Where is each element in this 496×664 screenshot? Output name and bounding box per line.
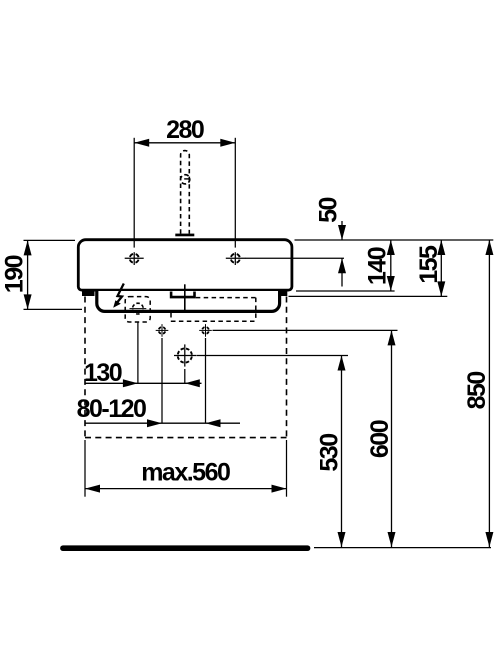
faucet base plate bbox=[175, 234, 194, 237]
floor line thick bbox=[63, 545, 308, 551]
dimension 280 extension line right bbox=[234, 138, 236, 248]
faucet aerator dashed circle bbox=[181, 175, 190, 184]
svg-text:50: 50 bbox=[315, 198, 343, 223]
basin top extension line bbox=[295, 239, 494, 241]
dimension 530 bbox=[316, 356, 346, 548]
floor line thin bbox=[314, 547, 491, 549]
dimension 50 bbox=[315, 198, 347, 287]
wall bracket right bbox=[275, 289, 288, 296]
dimension 600 bbox=[366, 330, 396, 547]
dimension 280 bbox=[134, 116, 235, 147]
fixing hole left bbox=[156, 324, 169, 337]
inlet extension line bbox=[137, 323, 139, 384]
fixing left extension line bbox=[161, 338, 163, 423]
dimension 280 extension line left bbox=[133, 138, 135, 248]
drain fitting bbox=[171, 292, 194, 298]
siphon cover outline bbox=[97, 291, 280, 311]
water inlet circle bbox=[130, 303, 147, 314]
fixing right extension line bbox=[205, 338, 207, 423]
dimension 140 bbox=[363, 240, 395, 291]
svg-text:140: 140 bbox=[363, 247, 391, 285]
svg-text:max.560: max.560 bbox=[141, 459, 230, 487]
basin outline bbox=[78, 240, 292, 290]
svg-text:600: 600 bbox=[366, 420, 394, 458]
lightning arrow bbox=[113, 284, 124, 308]
dimension 80-120 bbox=[77, 395, 240, 427]
tap hole right crosshair bbox=[226, 252, 246, 265]
svg-text:80-120: 80-120 bbox=[77, 395, 146, 423]
tap hole extension line right bbox=[245, 257, 344, 259]
svg-text:280: 280 bbox=[166, 116, 204, 144]
concealed trap dashed rect bbox=[171, 298, 256, 322]
svg-text:850: 850 bbox=[463, 372, 491, 410]
drain hole crosshair bbox=[174, 344, 196, 366]
basin bottom extension line bbox=[296, 290, 395, 292]
svg-text:190: 190 bbox=[0, 255, 28, 293]
dimension 130 bbox=[84, 359, 202, 388]
svg-text:530: 530 bbox=[316, 434, 344, 472]
installation space dashed rect bbox=[85, 297, 287, 438]
fixing hole right bbox=[199, 324, 212, 337]
dimension 155 bbox=[415, 240, 445, 296]
svg-text:130: 130 bbox=[84, 359, 122, 387]
max.560 extension lines bbox=[84, 440, 86, 497]
drain extension line bbox=[184, 369, 186, 383]
dimension 190 ticks bbox=[24, 239, 76, 241]
tap hole left crosshair bbox=[125, 252, 144, 265]
dimension 850 bbox=[463, 240, 493, 547]
faucet dashed outline bbox=[181, 151, 190, 234]
dimension max.560 bbox=[85, 459, 287, 493]
bracket bottom extension line bbox=[289, 295, 448, 297]
dimension 190 bbox=[0, 240, 31, 309]
drain centerline bbox=[184, 284, 186, 311]
fixing holes line to 600 bbox=[213, 329, 398, 331]
svg-text:155: 155 bbox=[415, 245, 443, 284]
wall bracket left bbox=[82, 289, 95, 296]
drain line to 530 bbox=[197, 355, 349, 357]
water inlet dashed box bbox=[125, 297, 150, 322]
